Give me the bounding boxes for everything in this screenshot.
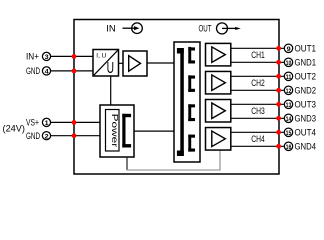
svg-text:CH4: CH4 bbox=[251, 134, 264, 144]
junction dot OUT1 bbox=[276, 46, 281, 51]
I/U converter U1 bbox=[93, 50, 119, 77]
svg-text:U: U bbox=[107, 60, 114, 77]
svg-text:VS+: VS+ bbox=[26, 118, 39, 128]
svg-text:4: 4 bbox=[45, 69, 49, 76]
terminal 9 OUT1 bbox=[284, 44, 292, 52]
junction dot GND3 bbox=[276, 116, 281, 121]
svg-text:I, U: I, U bbox=[96, 53, 106, 60]
svg-text:GND: GND bbox=[26, 131, 40, 141]
wire OUT1 bbox=[231, 47, 284, 49]
svg-text:(24V): (24V) bbox=[3, 124, 26, 134]
terminal 13 OUT3 bbox=[284, 100, 292, 108]
svg-text:2: 2 bbox=[45, 133, 49, 140]
svg-text:CH2: CH2 bbox=[251, 78, 264, 88]
svg-text:OUT2: OUT2 bbox=[295, 72, 317, 82]
primary winding bbox=[177, 48, 184, 156]
svg-text:3: 3 bbox=[45, 54, 49, 61]
wire OUT2 bbox=[231, 75, 284, 77]
svg-text:OUT3: OUT3 bbox=[295, 100, 317, 110]
input amplifier bbox=[123, 51, 147, 76]
terminal 15 OUT4 bbox=[284, 128, 292, 136]
current-in symbol bbox=[123, 23, 143, 34]
wire GND1 bbox=[231, 61, 284, 63]
amplifier CH3 bbox=[206, 100, 231, 123]
wire IN+ to I/U bbox=[50, 55, 93, 57]
junction dot GND4 bbox=[276, 144, 281, 149]
wire GND4 bbox=[231, 145, 284, 147]
terminal 12 GND2 bbox=[284, 86, 292, 94]
junction dot OUT3 bbox=[276, 102, 281, 107]
svg-text:15: 15 bbox=[286, 131, 292, 137]
svg-text:OUT: OUT bbox=[199, 23, 212, 33]
svg-text:GND3: GND3 bbox=[295, 114, 317, 124]
wire VS+ to Power bbox=[50, 121, 100, 123]
module outline box bbox=[74, 20, 279, 175]
terminal 16 GND4 bbox=[284, 142, 292, 150]
svg-text:GND2: GND2 bbox=[295, 86, 317, 96]
secondary winding CH1 bbox=[188, 47, 195, 64]
amplifier CH2 bbox=[206, 71, 231, 94]
svg-text:CH3: CH3 bbox=[251, 106, 264, 116]
wire I/U to Power bbox=[110, 76, 112, 105]
wire GND to Power bbox=[50, 135, 100, 137]
svg-text:11: 11 bbox=[286, 75, 292, 81]
terminal 11 OUT2 bbox=[284, 72, 292, 80]
terminal 10 GND1 bbox=[284, 58, 292, 66]
svg-text:GND4: GND4 bbox=[295, 142, 317, 152]
junction dot GND2 bbox=[276, 88, 281, 93]
junction dot GND1 bbox=[276, 60, 281, 65]
svg-text:OUT4: OUT4 bbox=[295, 128, 317, 138]
isolation transformer box bbox=[174, 42, 200, 162]
wire input amp to transformer bbox=[147, 62, 174, 64]
junction dot GND in bbox=[72, 69, 77, 74]
junction dot OUT4 bbox=[276, 130, 281, 135]
svg-text:14: 14 bbox=[286, 117, 292, 123]
svg-text:13: 13 bbox=[286, 103, 292, 109]
wire Power to transformer bbox=[134, 130, 175, 132]
wire GND3 bbox=[231, 117, 284, 119]
junction dot OUT2 bbox=[276, 74, 281, 79]
wire OUT3 bbox=[231, 103, 284, 105]
svg-text:1: 1 bbox=[45, 120, 49, 127]
svg-text:GND1: GND1 bbox=[295, 58, 317, 68]
secondary winding CH4 bbox=[188, 135, 195, 152]
power transformer winding bbox=[122, 114, 131, 148]
amplifier CH1 bbox=[206, 43, 231, 66]
svg-text:IN: IN bbox=[106, 23, 116, 33]
svg-text:IN+: IN+ bbox=[26, 52, 39, 62]
junction dot IN+ bbox=[72, 54, 77, 59]
wire OUT4 bbox=[231, 131, 284, 133]
secondary winding CH3 bbox=[188, 104, 195, 121]
amplifier CH4 bbox=[206, 128, 231, 151]
terminal 14 GND3 bbox=[284, 114, 292, 122]
wire I/U to input amp bbox=[119, 62, 124, 64]
svg-text:10: 10 bbox=[286, 61, 292, 67]
secondary winding CH2 bbox=[188, 75, 195, 92]
wire GND2 bbox=[231, 89, 284, 91]
svg-text:12: 12 bbox=[286, 89, 292, 95]
power supply module bbox=[100, 105, 134, 157]
svg-text:OUT1: OUT1 bbox=[295, 44, 317, 54]
wire GND to I/U bbox=[50, 70, 93, 72]
wire Power bottom loop to CH4 amp bbox=[126, 157, 128, 170]
current-out symbol bbox=[217, 23, 237, 34]
svg-text:Power: Power bbox=[110, 114, 119, 148]
svg-text:GND: GND bbox=[26, 66, 40, 76]
svg-text:CH1: CH1 bbox=[251, 50, 264, 60]
svg-text:9: 9 bbox=[287, 46, 291, 53]
junction dot GND supply bbox=[72, 133, 77, 138]
svg-text:16: 16 bbox=[286, 145, 292, 151]
junction dot VS+ bbox=[72, 120, 77, 125]
